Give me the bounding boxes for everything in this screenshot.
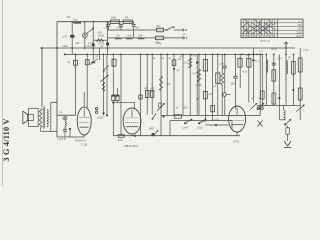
svg-text:4Ω2: 4Ω2 — [156, 26, 161, 28]
junction blob — [106, 42, 109, 45]
switch S4b — [154, 131, 158, 136]
wire busB to busC — [252, 48, 254, 103]
junction dots — [56, 47, 58, 49]
svg-text:100kΩ: 100kΩ — [98, 35, 105, 37]
svg-text:µ+4,7: µ+4,7 — [220, 64, 227, 66]
tube V1 C18 — [77, 107, 91, 135]
resistor R5 — [156, 36, 164, 40]
switch S3 — [103, 70, 105, 72]
wire v x293 — [292, 54, 294, 105]
wire v x279 — [278, 54, 280, 119]
svg-text:µ+05: µ+05 — [214, 118, 220, 121]
resistor R11 — [118, 134, 124, 137]
resistor R9 — [112, 95, 115, 101]
svg-text:µ+1µF: µ+1µF — [195, 85, 202, 87]
wire right row — [257, 104, 300, 106]
wire v x121 — [120, 54, 122, 135]
wire switch branch — [92, 22, 94, 48]
table row smudges — [242, 35, 275, 37]
svg-text:178: 178 — [115, 35, 120, 38]
switch lever S1 — [86, 29, 93, 34]
ladder box — [170, 120, 232, 122]
wire left vertical — [56, 22, 58, 137]
resistor R6 — [75, 54, 77, 115]
switch X mark — [258, 121, 263, 127]
resistor R13 — [146, 54, 148, 114]
resistor R21 — [261, 54, 263, 106]
svg-text:+100: +100 — [126, 35, 132, 38]
svg-text:45V: 45V — [298, 25, 303, 27]
switch S5 — [184, 122, 186, 124]
resistor chain right — [299, 48, 301, 120]
capacitor C7 — [224, 54, 226, 66]
resistor R8 — [102, 82, 105, 92]
wire stub x99 — [98, 48, 100, 60]
resistor R17 — [204, 54, 206, 120]
variable capacitor C9 — [92, 48, 94, 62]
scan edge line — [2, 0, 4, 186]
svg-text:µ+0,5·Ø: µ+0,5·Ø — [58, 139, 66, 141]
resistor R10 — [117, 88, 119, 95]
svg-text:470: 470 — [67, 16, 72, 19]
resistor R7 — [86, 54, 88, 107]
wire mid bottom bus — [161, 115, 260, 117]
resistor R16 — [198, 54, 200, 115]
trimmer arrow 1 — [250, 103, 257, 109]
wire v x167 — [166, 54, 168, 115]
svg-text:µF00: µF00 — [149, 129, 155, 131]
wire grid row — [57, 114, 76, 116]
variable arrow — [100, 75, 108, 82]
lamp La1 — [84, 22, 86, 34]
resistor R20 — [175, 115, 182, 119]
resistor R17c — [212, 54, 214, 120]
svg-text:+100: +100 — [116, 27, 122, 29]
svg-text:1M: 1M — [151, 91, 154, 93]
switch S4 — [152, 118, 154, 120]
svg-text:168: 168 — [138, 35, 143, 38]
resistor R15 — [189, 54, 191, 115]
potentiometer chain — [103, 54, 105, 115]
trimmer arrow 3 — [296, 105, 304, 112]
wire cathode row — [113, 135, 240, 137]
capacitor C6 — [64, 115, 66, 117]
resistor R13b — [151, 54, 153, 114]
svg-text:µ5 µF: µ5 µF — [271, 48, 278, 51]
capacitor C5 — [133, 22, 135, 25]
svg-text:Dra.: Dra. — [74, 20, 79, 22]
speaker LS — [22, 111, 24, 124]
svg-text:F.Cb: F.Cb — [304, 49, 310, 52]
wire output b coil row — [108, 37, 156, 39]
terminal circles V1 — [95, 107, 97, 109]
pickup arrow — [284, 123, 286, 125]
transformer core — [42, 107, 44, 129]
svg-text:220V: 220V — [296, 32, 302, 34]
arrow up antenna — [285, 43, 287, 55]
coil L6 — [248, 54, 250, 102]
wire node x107 — [106, 54, 108, 115]
svg-text:µ+18: µ+18 — [197, 127, 203, 130]
mains arrow down — [284, 141, 291, 146]
svg-text:p70: p70 — [63, 35, 68, 38]
resistor R22 — [112, 54, 114, 95]
svg-text:100k: 100k — [63, 45, 69, 48]
svg-text:3200: 3200 — [183, 108, 189, 110]
wire HT bus — [40, 47, 295, 49]
wire tube V2 cathode — [131, 134, 133, 136]
junction dot V1 side — [69, 128, 71, 130]
svg-text:I·K32: I·K32 — [233, 140, 240, 144]
resistor R12 — [140, 54, 142, 135]
wire v x197 — [196, 54, 198, 115]
resistor R17b — [204, 91, 208, 99]
svg-text:µ+47: µ+47 — [183, 127, 189, 130]
capacitor C3 — [107, 22, 109, 25]
svg-text:470: 470 — [124, 16, 129, 19]
resistor R18 — [217, 54, 219, 115]
top wire junction dots — [71, 21, 73, 23]
capacitor C10 and resistor — [273, 54, 275, 105]
svg-text:200k: 200k — [111, 16, 117, 19]
capacitor C8 — [235, 54, 237, 76]
svg-text:470: 470 — [180, 56, 185, 59]
fuse Si — [287, 125, 289, 127]
svg-text:100k: 100k — [97, 33, 103, 35]
svg-text:µ41: µ41 — [76, 42, 81, 45]
wire heater bus — [65, 53, 262, 55]
svg-text:2000: 2000 — [231, 83, 237, 85]
trimmer arrow 2 — [259, 54, 261, 115]
terminal circles — [257, 107, 260, 110]
wire transformer right — [50, 102, 52, 131]
resistor R14 — [173, 54, 175, 115]
svg-text:Allstr.: Allstr. — [296, 35, 302, 38]
wire tube V3 grid — [205, 124, 229, 126]
potentiometer P1 — [160, 54, 162, 135]
svg-text:µ+1: µ+1 — [255, 60, 260, 62]
connection table — [241, 19, 303, 37]
transformer T1 secondary — [47, 110, 48, 127]
svg-text:00+3: 00+3 — [243, 71, 249, 73]
wire tube V3 cathode — [236, 132, 238, 136]
switch S2 — [166, 29, 168, 31]
wire tube V1 bottom — [57, 136, 84, 138]
wire top bus — [57, 21, 134, 23]
svg-text:MB41 DK21: MB41 DK21 — [124, 145, 138, 148]
transformer T1 primary — [39, 109, 42, 128]
coil L7b — [285, 54, 287, 105]
switch S6 — [198, 122, 200, 124]
resistor R20b — [239, 54, 241, 88]
tube V3 IK32 — [229, 106, 246, 132]
wire v x183 — [182, 54, 184, 115]
trimmer capacitor C2 — [71, 22, 73, 55]
svg-text:3 G 4/110 V: 3 G 4/110 V — [2, 118, 11, 161]
svg-text:0,1µF 25: 0,1µF 25 — [86, 45, 96, 48]
wire cap to coil — [133, 30, 135, 38]
wire output a — [108, 29, 157, 31]
capacitor C4 — [120, 23, 122, 26]
coil L7a — [265, 54, 267, 105]
svg-text:4aV: 4aV — [298, 29, 303, 31]
jack circle — [223, 93, 227, 97]
junction blob left — [92, 43, 95, 46]
table marks — [242, 19, 276, 34]
tube V2 DAC21 — [123, 108, 141, 134]
wire tube V1 grid — [83, 92, 85, 106]
speaker frame — [29, 108, 39, 126]
svg-text:C 18: C 18 — [81, 142, 88, 146]
wire speaker top — [41, 48, 43, 107]
junction — [112, 102, 114, 104]
svg-text:µF0,5: µF0,5 — [98, 118, 105, 120]
svg-text:4·70: 4·70 — [157, 44, 162, 46]
svg-text:1M: 1M — [184, 61, 187, 64]
svg-text:0407: 0407 — [118, 140, 124, 142]
junction blob cathode — [151, 133, 154, 136]
resistor R19 — [221, 54, 223, 73]
svg-text:64-87-1.2: 64-87-1.2 — [260, 41, 271, 43]
coil L8 — [283, 105, 285, 110]
